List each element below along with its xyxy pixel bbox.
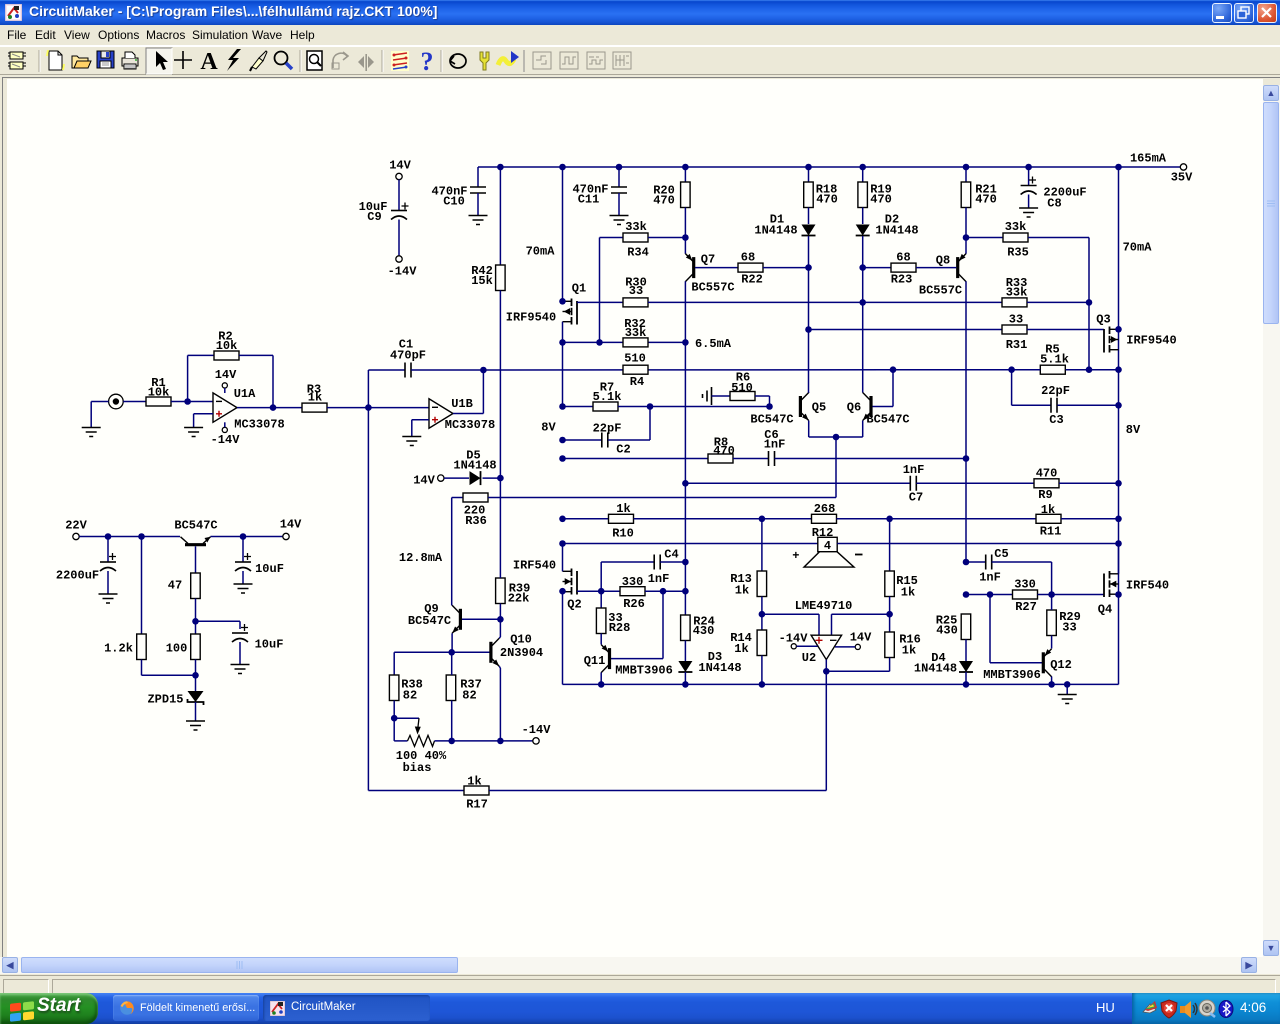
svg-text:C2: C2 [616, 443, 630, 457]
wire R38 to pot [393, 718, 395, 741]
svg-text:MC33078: MC33078 [445, 418, 495, 432]
wire C3 drop [1011, 370, 1013, 406]
svg-text:R17: R17 [466, 798, 488, 812]
wire Q10 emitter down [499, 666, 500, 668]
wire jack to R1 [123, 401, 146, 403]
svg-text:14V: 14V [215, 368, 237, 382]
svg-text:22pF: 22pF [1041, 384, 1070, 398]
transistor Q3 IRF9540 [1110, 328, 1119, 330]
transistor BC547C regulator (horizontal) [185, 543, 206, 546]
transistor Q11 MMBT3906 [608, 648, 611, 669]
wire regulator emitter to 14V [211, 536, 283, 538]
wire D5 anode [444, 477, 469, 479]
resistor 100 [191, 634, 201, 660]
wire R10 row [563, 518, 609, 520]
wire 1.2k top [141, 537, 143, 635]
svg-text:MMBT3906: MMBT3906 [983, 668, 1041, 682]
junction zener node [192, 672, 199, 679]
wire R18 to D1 [808, 208, 810, 225]
wire R37 top [451, 652, 453, 675]
junction 47/100/10uF [192, 618, 199, 625]
junction on rail x=500.4 [497, 164, 504, 171]
svg-text:1nF: 1nF [903, 463, 925, 477]
svg-text:C8: C8 [1047, 197, 1061, 211]
junction Q10 emitter on -14V wire [497, 738, 504, 745]
terminal 22V [73, 533, 79, 539]
wire R8 row left [563, 458, 709, 460]
capacitor C1 470pF [368, 369, 405, 371]
junction ground stub on bus [1064, 681, 1071, 688]
junction D3 on bus [682, 681, 689, 688]
reset [450, 54, 466, 68]
resistor R10 1k [609, 514, 634, 523]
junction 10uF top [240, 533, 247, 540]
system tray [1132, 993, 1280, 1024]
svg-text:470: 470 [975, 193, 997, 207]
wire Q2 gate wire [577, 590, 620, 592]
ground U1A+ [184, 428, 203, 437]
wire 1.2k bottom [141, 660, 143, 676]
diode D3 1N4148 [678, 661, 692, 672]
wire C3 right [1058, 404, 1119, 406]
wire D2 to Q6 collector [862, 236, 864, 393]
resistor R28 33 [596, 608, 606, 634]
junction R35 node [963, 234, 970, 241]
wire R27 row [966, 594, 1013, 596]
junction U1B node x562 [559, 403, 566, 410]
wire rail to C8 [1028, 167, 1030, 186]
svg-text:1.2k: 1.2k [104, 642, 133, 656]
svg-text:100: 100 [166, 642, 188, 656]
svg-text:33k: 33k [625, 220, 647, 234]
wire C7 right [916, 482, 1034, 484]
wrench [480, 52, 489, 70]
svg-text:IRF9540: IRF9540 [506, 311, 556, 325]
junction y543 left [559, 540, 566, 547]
resistor R23 68 [891, 263, 916, 272]
terminal 14V (U2) [855, 644, 860, 649]
svg-text:Q6: Q6 [847, 401, 861, 415]
resistor R9 470 [1034, 479, 1059, 488]
wire Q7 collector down [684, 281, 686, 562]
wire R26 right [645, 590, 685, 592]
svg-text:5.1k: 5.1k [593, 390, 622, 404]
junction on rail x=966 [963, 164, 970, 171]
svg-text:68: 68 [896, 251, 910, 265]
svg-text:R9: R9 [1038, 488, 1052, 502]
terminal 14V (D5) [438, 475, 444, 481]
potentiometer wiper arrow [418, 718, 420, 731]
resistor R18 470 [804, 182, 814, 208]
wire Q6 base right [873, 406, 894, 408]
label - (speaker) [855, 554, 863, 556]
junction R26 right [682, 588, 689, 595]
svg-text:C3: C3 [1049, 413, 1063, 427]
wire bus ground stub [1066, 684, 1068, 694]
capacitor C9 10uF [402, 203, 409, 210]
junction Q3 drain [1115, 326, 1122, 333]
ground 10uF bottom [231, 665, 250, 674]
wire C5 right [992, 561, 1052, 563]
transistor Q12 MMBT3906 [1042, 652, 1045, 673]
wire jack left [91, 401, 108, 403]
junction R6/Q5 base [766, 403, 773, 410]
svg-text:10k: 10k [148, 386, 170, 400]
junction emitters [833, 434, 840, 441]
resistor R6 510 [730, 392, 755, 401]
wire rail down right bus 70mA [1118, 167, 1120, 595]
wire pot to -14V [435, 740, 534, 742]
wire C4 left [600, 562, 602, 591]
wire to 10uF bottom [196, 620, 241, 622]
wire R35 right [1028, 237, 1089, 239]
wire R29 to Q12 [1051, 636, 1053, 649]
resistor R11 1k [1036, 514, 1061, 523]
svg-text:-14V: -14V [522, 723, 552, 737]
junction R33/R35 [1086, 299, 1093, 306]
svg-text:470pF: 470pF [390, 349, 426, 363]
junction R31 wire tap [805, 326, 812, 333]
svg-text:C10: C10 [443, 195, 465, 209]
svg-text:BC547C: BC547C [174, 519, 217, 533]
wire 2200uF to ground [107, 571, 109, 594]
svg-text:C5: C5 [994, 547, 1008, 561]
wire R17 row left [368, 790, 464, 792]
wire R38 bottom [393, 701, 395, 719]
svg-text:R26: R26 [623, 597, 645, 611]
resistor R3 1k [302, 403, 327, 412]
wire C2 left [563, 439, 602, 441]
capacitor C10 470nF [470, 187, 486, 193]
junction R3/C1 node [365, 404, 372, 411]
ground U1B+ [402, 437, 421, 446]
transistor Q10 2N3904 [489, 642, 492, 663]
wire rail to R19 [862, 167, 864, 182]
svg-text:14V: 14V [280, 518, 302, 532]
svg-text:C11: C11 [578, 193, 600, 207]
svg-text:Q2: Q2 [567, 598, 581, 612]
wire zener to ground [195, 702, 197, 721]
wire R10 to R12 [634, 518, 812, 520]
plus tool [174, 51, 192, 69]
wire Q5 collector [808, 392, 810, 395]
svg-text:Q5: Q5 [812, 401, 826, 415]
svg-text:R36: R36 [465, 514, 487, 528]
svg-text:C4: C4 [664, 548, 678, 562]
wire Q9 base [462, 618, 500, 620]
transistor Q4 IRF540 [1110, 573, 1119, 575]
wire feedback left drop [367, 408, 369, 791]
wire R19 to D2 [862, 208, 864, 225]
svg-text:470: 470 [1036, 467, 1058, 481]
junction R12 right [886, 516, 893, 523]
svg-text:Q11: Q11 [584, 654, 606, 668]
resistor R36 220 [463, 493, 488, 502]
wire R20 to R34 node [684, 208, 686, 254]
svg-text:22pF: 22pF [593, 422, 622, 436]
wire R11 right [1061, 518, 1119, 520]
wire R9 right [1059, 482, 1119, 484]
wire R2 left leg [187, 355, 189, 401]
svg-text:33k: 33k [625, 326, 647, 340]
svg-text:ZPD15: ZPD15 [147, 693, 183, 707]
svg-text:430: 430 [936, 624, 958, 638]
terminal -14V (C9 bottom) [396, 256, 402, 262]
svg-text:+: + [792, 549, 799, 563]
wire R1 to U1A- [171, 401, 213, 403]
wire R21 to Q8 [965, 208, 967, 254]
wire tail down [835, 437, 837, 498]
svg-text:33k: 33k [1005, 220, 1027, 234]
diode D2 1N4148 [856, 225, 870, 236]
junction U2 out [823, 668, 830, 675]
junction D2/R23 node [859, 264, 866, 271]
svg-text:470: 470 [870, 193, 892, 207]
wire R31 left [809, 329, 1003, 331]
svg-text:R22: R22 [741, 273, 763, 287]
junction R27 left node [963, 591, 970, 598]
svg-text:Q10: Q10 [510, 633, 532, 647]
resistor R30 33 [623, 298, 648, 307]
wire R30 to R33 [648, 301, 1002, 303]
svg-text:BC547C: BC547C [866, 413, 909, 427]
svg-text:268: 268 [814, 502, 836, 516]
svg-text:IRF540: IRF540 [1126, 579, 1169, 593]
resistor R12 268 [812, 514, 837, 523]
wire R34 left [600, 237, 624, 239]
svg-text:1N4148: 1N4148 [914, 662, 957, 676]
svg-text:LME49710: LME49710 [795, 599, 853, 613]
resistor R32 33k [623, 338, 648, 347]
wire 10uF to ground [242, 571, 244, 584]
junction 1.2k [138, 533, 145, 540]
junction R37 on -14V wire [448, 738, 455, 745]
capacitor C2 22pF [602, 433, 608, 448]
junction Q12 base tap [987, 591, 994, 598]
svg-text:C7: C7 [909, 491, 923, 505]
svg-text:R23: R23 [891, 273, 913, 287]
wire R15 top [889, 519, 891, 571]
junction on rail x=808.5 [805, 164, 812, 171]
svg-text:8V: 8V [1126, 423, 1141, 437]
ground output bus [1058, 695, 1077, 704]
resistor R20 470 [681, 182, 691, 208]
svg-text:Q4: Q4 [1098, 603, 1112, 617]
svg-text:70mA: 70mA [1123, 241, 1153, 255]
svg-text:bias: bias [403, 761, 432, 775]
wire R29 top [1051, 595, 1053, 611]
capacitor C5 1nF [986, 555, 992, 570]
svg-text:1N4148: 1N4148 [698, 661, 741, 675]
transistor Q8 BC557C [956, 257, 959, 278]
wire R31 to Q3 gate [1027, 329, 1104, 331]
junction R14 on bus [759, 681, 766, 688]
wire R35 down to R33 [1088, 238, 1090, 370]
wire D1 to Q5 collector [808, 236, 810, 393]
wire output bus [563, 683, 1119, 685]
wire C1 left leg [367, 370, 369, 408]
ground C10 [469, 216, 488, 225]
junction R12 left [759, 516, 766, 523]
wire D5 cathode [483, 477, 501, 479]
svg-text:-14V: -14V [779, 632, 809, 646]
wire R42 to D5 node [499, 291, 501, 479]
svg-text:U1B: U1B [451, 397, 473, 411]
wire rail to C11 [618, 167, 620, 187]
wire ground to R6 [712, 395, 731, 397]
wire Q1 gate to R30 [577, 301, 623, 303]
op-amp U2 LME49710 (down) [811, 635, 842, 659]
svg-text:1k: 1k [308, 391, 322, 405]
svg-text:10uF: 10uF [255, 638, 284, 652]
menu bar [0, 25, 1280, 46]
svg-text:R27: R27 [1015, 600, 1037, 614]
wire U1A out [237, 407, 302, 409]
wire R37 bottom [451, 701, 453, 741]
wire R14 to bus [761, 656, 763, 685]
junction 2200uF [105, 533, 112, 540]
junction R25 on bus [963, 681, 970, 688]
svg-text:510: 510 [731, 381, 753, 395]
junction pot wiper node [391, 715, 398, 722]
junction Q9 base/R39 [497, 616, 504, 623]
junction x599 [596, 339, 603, 346]
svg-text:1nF: 1nF [648, 572, 670, 586]
svg-text:4: 4 [824, 539, 831, 553]
wire R23 to Q8 base [916, 267, 956, 269]
svg-text:R11: R11 [1040, 525, 1062, 539]
wire Q5 emitter down [808, 421, 810, 438]
junction C3 right [1115, 402, 1122, 409]
U1A +14V pin [222, 383, 227, 388]
svg-text:IRF9540: IRF9540 [1126, 334, 1176, 348]
svg-text:10k: 10k [216, 339, 238, 353]
svg-text:82: 82 [462, 689, 476, 703]
capacitor C6 1nF [769, 451, 775, 466]
resistor R24 430 [681, 615, 691, 641]
diode D1 1N4148 [802, 225, 816, 236]
svg-text:68: 68 [741, 251, 755, 265]
svg-text:47: 47 [168, 579, 182, 593]
save [97, 51, 114, 68]
junction C5 left [963, 559, 970, 566]
wire Q2 source down [562, 591, 564, 684]
wire R8 to C6 [733, 458, 769, 460]
svg-text:U2: U2 [802, 651, 816, 665]
svg-text:510: 510 [624, 352, 646, 366]
resistor R19 470 [858, 182, 868, 208]
wire speaker right [837, 543, 1118, 545]
mirror (gray) [358, 54, 374, 71]
svg-text:2200uF: 2200uF [56, 569, 99, 583]
svg-text:BC557C: BC557C [691, 281, 734, 295]
capacitor 2200uF [107, 537, 109, 563]
wire rail to R18 [808, 167, 810, 182]
svg-text:33k: 33k [1006, 286, 1028, 300]
svg-text:Q8: Q8 [936, 254, 950, 268]
wire Q12 collector down [1051, 677, 1053, 685]
wire R36 right long [488, 497, 836, 499]
junction Q12 on bus [1048, 681, 1055, 688]
magnifier [275, 52, 293, 70]
open [72, 56, 91, 68]
wire R28 to Q11 [600, 634, 602, 645]
op-amp U1A MC33078 [213, 393, 237, 422]
wire U1A+ to ground [194, 413, 213, 415]
svg-text:1nF: 1nF [979, 571, 1001, 585]
resistor R31 33 [1002, 325, 1027, 334]
resistor R15 1k [885, 571, 895, 597]
svg-text:8V: 8V [541, 421, 556, 435]
resistor R42 15k [496, 265, 506, 291]
svg-text:14V: 14V [389, 159, 411, 173]
svg-text:1nF: 1nF [764, 438, 786, 452]
junction x685 [682, 339, 689, 346]
rotate (gray) [332, 52, 348, 69]
resistor R25 430 [961, 614, 971, 640]
junction x562 [559, 339, 566, 346]
junction R34/R20 [682, 234, 689, 241]
zoom doc [307, 51, 322, 70]
wire 47 to 100 [195, 599, 197, 635]
wire R34 right [648, 237, 685, 239]
new [47, 50, 64, 70]
svg-text:Q12: Q12 [1050, 658, 1072, 672]
junction U2+ node [759, 611, 766, 618]
svg-text:1N4148: 1N4148 [754, 224, 797, 238]
ground R6 (rotated) [703, 387, 712, 405]
resistor R34 33k [623, 233, 648, 242]
capacitor C4 1nF [654, 555, 660, 570]
svg-text:70mA: 70mA [526, 245, 556, 259]
wire rail to Q1 [562, 167, 564, 301]
svg-text:14V: 14V [850, 631, 872, 645]
wire C4 node down [684, 562, 686, 615]
terminal -14V (bias) [533, 738, 539, 744]
run wave [498, 51, 519, 65]
wire R13 top [761, 519, 763, 571]
transistor Q9 BC547C [459, 609, 462, 630]
svg-text:1N4148: 1N4148 [453, 459, 496, 473]
junction Q11 on bus [598, 681, 605, 688]
CircuitMaker task button (active) [263, 995, 430, 1021]
digital/analog [391, 51, 409, 71]
wire R6 right [755, 395, 770, 397]
svg-text:470: 470 [653, 194, 675, 208]
wire R33 right [1027, 301, 1089, 303]
wire C8 to ground [1028, 195, 1030, 209]
svg-text:470: 470 [713, 444, 735, 458]
junction C2 left [559, 437, 566, 444]
wire R15 to node [889, 597, 891, 633]
wire R7 right [618, 406, 770, 408]
junction on rail x=685.4 [682, 164, 689, 171]
wire C2 right [608, 439, 650, 441]
svg-text:Q3: Q3 [1096, 313, 1110, 327]
wire Q11 collector down [600, 673, 602, 685]
lightning [227, 49, 241, 71]
window title bar [0, 0, 1280, 25]
junction D5/R42 [497, 475, 504, 482]
resistor R29 33 [1047, 610, 1057, 636]
wire bias row [563, 341, 686, 343]
ground 2200uF [99, 594, 118, 603]
wire C5 left [966, 561, 986, 563]
svg-text:1k: 1k [467, 775, 481, 789]
junction Q9 emitter node [448, 649, 455, 656]
junction speaker right [1115, 540, 1122, 547]
wire C11 to ground [618, 193, 620, 216]
